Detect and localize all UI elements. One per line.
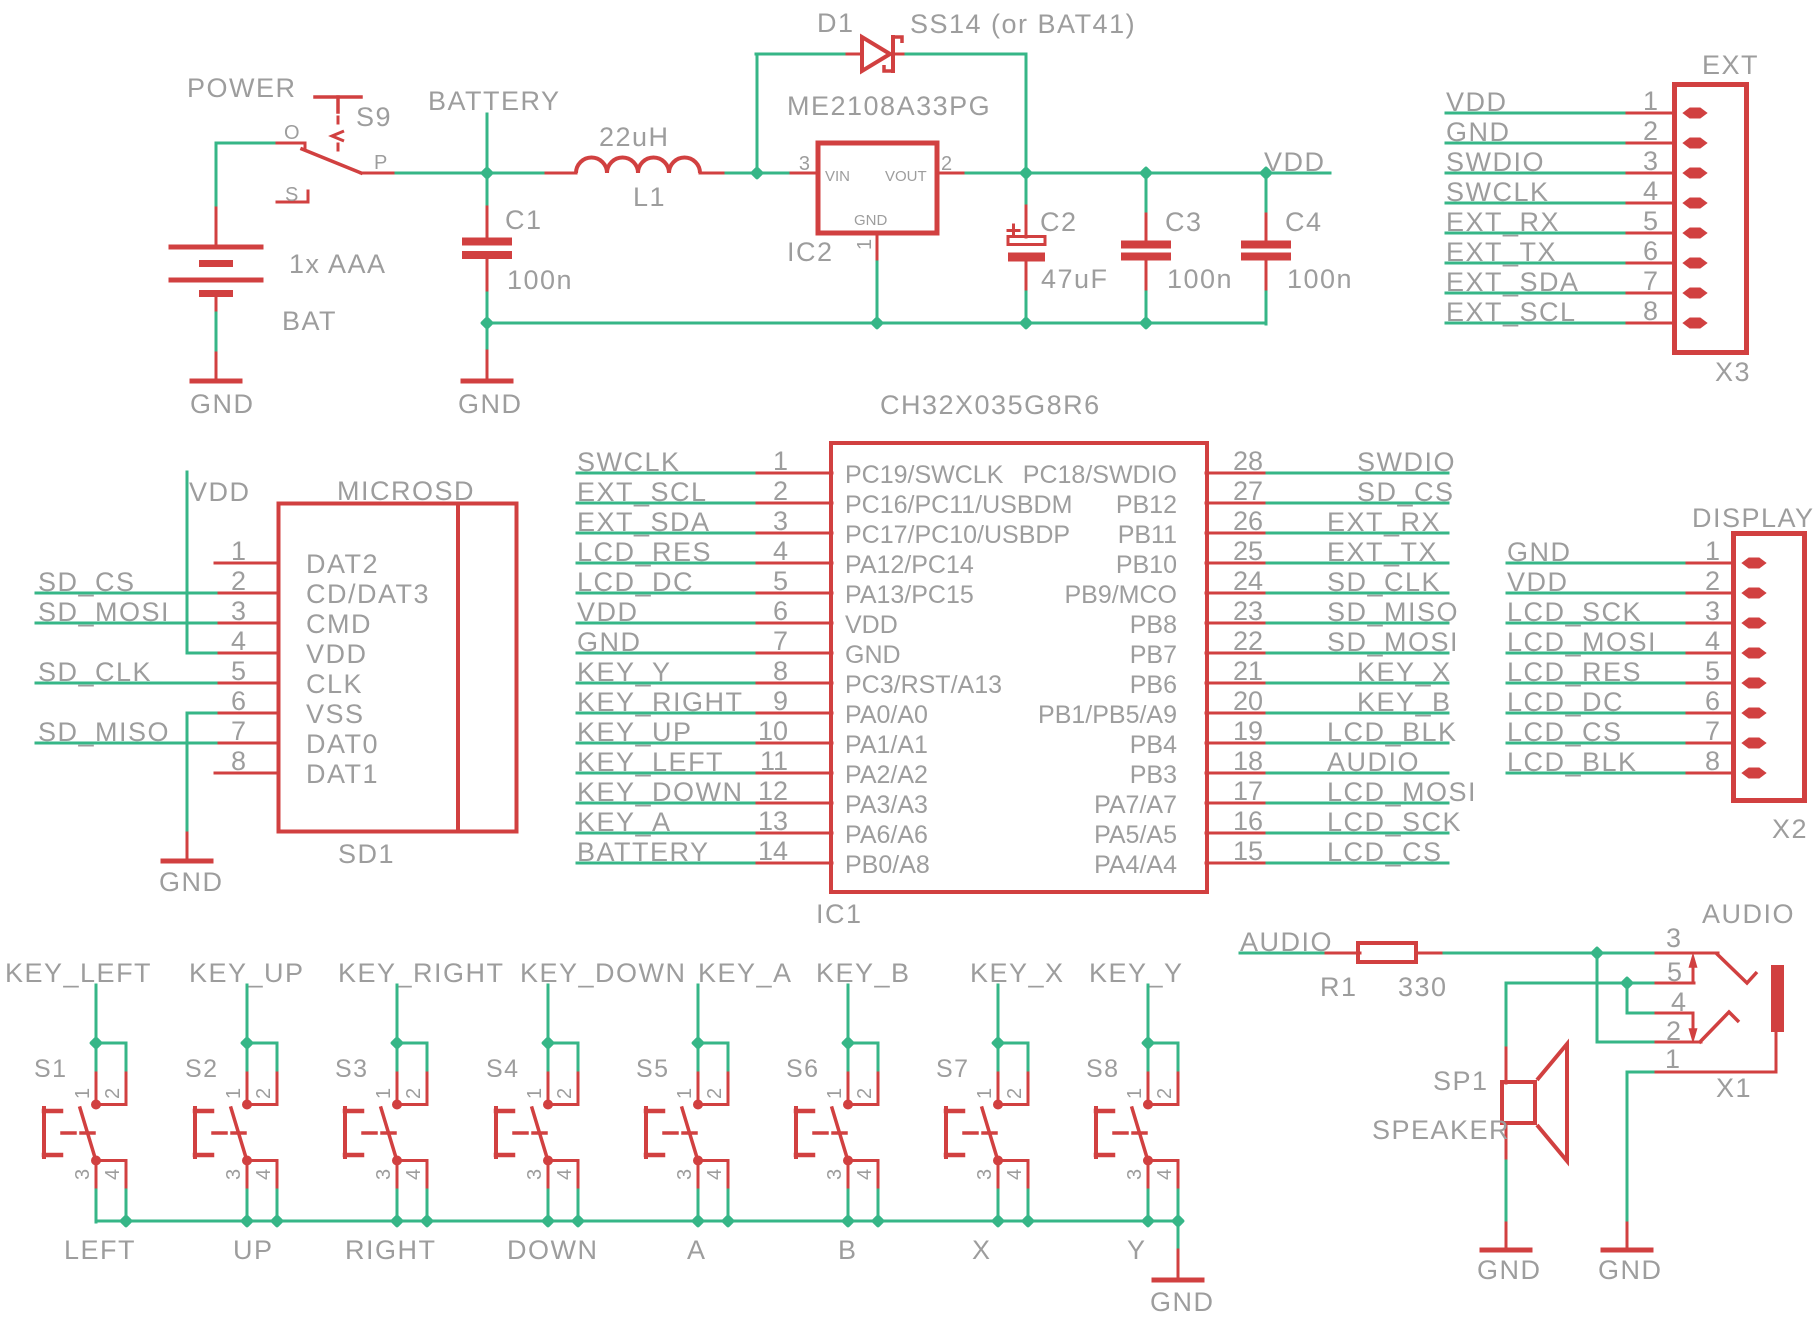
svg-text:S7: S7	[936, 1055, 970, 1083]
speaker SP1	[1502, 1044, 1567, 1162]
node junction ground rail at C3	[1139, 316, 1153, 330]
connector X2 DISPLAY box	[1734, 534, 1805, 801]
wire LCD_BLK to X2 pin 8	[1507, 772, 1688, 775]
wire EXT_RX to X3 pin 5	[1446, 232, 1628, 235]
svg-text:7: 7	[1643, 266, 1658, 296]
jack X1 ring contact	[1699, 1012, 1739, 1043]
wire S7 pins 1-2 bridge	[998, 1042, 1028, 1045]
svg-text:S9: S9	[356, 102, 392, 132]
svg-text:PB6: PB6	[1130, 671, 1177, 699]
svg-text:PC17/PC10/USBDP: PC17/PC10/USBDP	[845, 521, 1070, 549]
svg-text:3: 3	[524, 1169, 546, 1180]
svg-text:PB3: PB3	[1130, 761, 1177, 789]
svg-text:15: 15	[1233, 836, 1263, 866]
svg-text:4: 4	[1004, 1169, 1026, 1180]
svg-text:11: 11	[760, 746, 788, 776]
svg-text:PB10: PB10	[1116, 551, 1177, 579]
wire AUDIO to R1	[1240, 952, 1327, 955]
svg-text:CLK: CLK	[306, 669, 363, 699]
IC1 pin 26	[1206, 506, 1268, 536]
node junction ground rail at C2	[1019, 316, 1033, 330]
wire KEY_RIGHT drop	[396, 985, 399, 1044]
svg-text:VDD: VDD	[306, 639, 368, 669]
wire KEY_Y drop	[1147, 985, 1150, 1044]
svg-text:4: 4	[1643, 176, 1658, 206]
svg-text:X3: X3	[1715, 357, 1751, 387]
svg-text:20: 20	[1233, 686, 1263, 716]
wire S7 pins 3-4 to rail	[997, 1190, 1000, 1222]
svg-text:1: 1	[1705, 536, 1720, 566]
IC1 pin 11	[757, 746, 832, 776]
X2 pin 4	[1687, 626, 1765, 658]
IC1 pin 9	[757, 686, 832, 716]
node junction rail at S4 pin 3	[541, 1214, 555, 1228]
svg-text:S5: S5	[636, 1055, 670, 1083]
svg-text:GND: GND	[1598, 1255, 1663, 1285]
wire EXT_RX from IC1 pin 26	[1267, 532, 1448, 535]
wire IC2 pin1 to ground rail	[876, 262, 879, 323]
wire SD_CLK to SD1	[36, 682, 216, 685]
wire SD_CLK from IC1 pin 24	[1267, 592, 1448, 595]
SD1 pin 8 DAT1	[215, 746, 279, 776]
inductor L1	[546, 158, 727, 174]
node junction at S1 top	[89, 1036, 103, 1050]
svg-text:2: 2	[102, 1088, 124, 1099]
wire GND to X3 pin 2	[1446, 142, 1628, 145]
svg-text:ME2108A33PG: ME2108A33PG	[787, 91, 991, 121]
svg-text:3: 3	[1643, 146, 1658, 176]
wire battery + vertical	[215, 143, 218, 205]
switch S8	[1096, 1073, 1178, 1191]
switch S2	[195, 1073, 277, 1191]
svg-text:C1: C1	[505, 205, 543, 235]
svg-text:3: 3	[1705, 596, 1720, 626]
battery BAT symbol	[169, 204, 264, 313]
svg-text:S8: S8	[1086, 1055, 1120, 1083]
wire S5 pins 1-2 bridge	[698, 1042, 728, 1045]
svg-text:VIN: VIN	[825, 168, 850, 185]
wire S4 pins 3-4 to rail	[547, 1190, 550, 1222]
svg-text:EXT: EXT	[1702, 50, 1759, 80]
wire C1 ground drop	[486, 323, 489, 352]
svg-text:1: 1	[1665, 1044, 1680, 1074]
svg-text:4: 4	[1154, 1169, 1176, 1180]
IC1 pin 4	[757, 536, 832, 566]
svg-text:GND: GND	[159, 867, 224, 897]
node junction rail at S8 pin 3	[1141, 1214, 1155, 1228]
wire C4 bottom	[1265, 292, 1268, 324]
svg-text:1: 1	[773, 446, 788, 476]
svg-text:PA7/A7: PA7/A7	[1094, 791, 1177, 819]
IC1 pin 28	[1206, 446, 1268, 476]
switch S9 lever	[302, 149, 361, 173]
svg-text:2: 2	[704, 1088, 726, 1099]
svg-text:23: 23	[1233, 596, 1263, 626]
svg-text:B: B	[838, 1235, 858, 1265]
wire KEY_UP to IC1 pin 10	[577, 742, 758, 745]
wire LCD_BLK from IC1 pin 19	[1267, 742, 1448, 745]
svg-text:1: 1	[231, 536, 246, 566]
wire KEY_B drop	[847, 985, 850, 1044]
wire KEY_LEFT to IC1 pin 11	[577, 772, 758, 775]
svg-text:8: 8	[1643, 296, 1658, 326]
svg-text:3: 3	[773, 506, 788, 536]
wire R1 to jack X1 pin 3	[1444, 952, 1657, 955]
svg-text:2: 2	[1705, 566, 1720, 596]
svg-text:19: 19	[1233, 716, 1263, 746]
node junction at X1 pin 5	[1620, 976, 1634, 990]
wire SD_MISO from IC1 pin 23	[1267, 622, 1448, 625]
wire GND to SD1 pin 6	[187, 712, 216, 715]
svg-text:4: 4	[704, 1169, 726, 1180]
svg-text:PC16/PC11/USBDM: PC16/PC11/USBDM	[845, 491, 1072, 519]
svg-text:S3: S3	[335, 1055, 369, 1083]
jack X1 pin 4	[1656, 987, 1693, 1030]
node junction AUDIO at X1	[1590, 946, 1604, 960]
svg-text:22: 22	[1233, 626, 1263, 656]
wire speaker to X1 pin 5	[1506, 982, 1657, 985]
svg-text:RIGHT: RIGHT	[345, 1235, 437, 1265]
node junction rail at S2 pin 3	[240, 1214, 254, 1228]
X2 pin 5	[1687, 656, 1765, 688]
capacitor C1	[462, 203, 512, 294]
svg-text:22uH: 22uH	[599, 122, 670, 152]
IC1 pin 17	[1206, 776, 1268, 806]
wire AUDIO from IC1 pin 18	[1267, 772, 1448, 775]
node junction at S4 top	[541, 1036, 555, 1050]
svg-text:2: 2	[1004, 1088, 1026, 1099]
node junction rail at S1 pin 4	[119, 1214, 133, 1228]
svg-text:KEY_LEFT: KEY_LEFT	[5, 958, 152, 988]
svg-text:KEY_B: KEY_B	[816, 958, 911, 988]
svg-text:3: 3	[72, 1169, 94, 1180]
SD1 pin 1 DAT2	[215, 536, 279, 566]
wire LCD_RES to IC1 pin 4	[577, 562, 758, 565]
IC1 pin 2	[757, 476, 832, 506]
svg-text:PB1/PB5/A9: PB1/PB5/A9	[1038, 701, 1177, 729]
svg-text:VDD: VDD	[1264, 147, 1326, 177]
svg-text:1: 1	[373, 1088, 395, 1099]
svg-text:2: 2	[403, 1088, 425, 1099]
svg-text:GND: GND	[190, 389, 255, 419]
wire C2 top	[1025, 173, 1028, 203]
ground symbol at key rail	[1150, 1250, 1215, 1317]
svg-text:330: 330	[1398, 972, 1448, 1002]
wire AUDIO node to X1 pin 2	[1596, 953, 1599, 1042]
svg-text:S: S	[285, 184, 298, 206]
diode D1 schottky SS14	[847, 37, 907, 71]
svg-text:UP: UP	[233, 1235, 274, 1265]
svg-text:GND: GND	[458, 389, 523, 419]
wire C3 bottom	[1145, 292, 1148, 324]
svg-text:4: 4	[102, 1169, 124, 1180]
svg-text:DAT2: DAT2	[306, 549, 379, 579]
wire C3 top	[1145, 173, 1148, 211]
node junction at C3 top	[1139, 166, 1153, 180]
svg-text:GND: GND	[845, 641, 901, 669]
svg-text:KEY_RIGHT: KEY_RIGHT	[338, 958, 505, 988]
svg-text:BATTERY: BATTERY	[428, 86, 561, 116]
IC1 pin 21	[1206, 656, 1268, 686]
node junction ground rail at C1	[480, 316, 494, 330]
svg-text:3: 3	[974, 1169, 996, 1180]
svg-text:GND: GND	[854, 212, 888, 229]
regulator IC2 ME2108A33PG box	[818, 143, 937, 233]
svg-text:P: P	[374, 152, 387, 174]
svg-text:18: 18	[1233, 746, 1263, 776]
wire VOUT to VDD	[966, 172, 1330, 175]
svg-text:PA13/PC15: PA13/PC15	[845, 581, 974, 609]
switch S7	[946, 1073, 1028, 1191]
wire VIN node up to diode D1	[756, 54, 759, 174]
switch S6	[796, 1073, 878, 1191]
wire KEY_B from IC1 pin 20	[1267, 712, 1448, 715]
X3 pin 7	[1627, 266, 1706, 298]
IC2 pin 2	[939, 153, 967, 175]
wire S6 pins 1-2 bridge	[848, 1042, 878, 1045]
node junction at VIN	[750, 166, 764, 180]
svg-text:PC19/SWCLK: PC19/SWCLK	[845, 461, 1004, 489]
wire SWDIO from IC1 pin 28	[1267, 472, 1448, 475]
SD1 pin 3 CMD	[215, 596, 279, 626]
ground symbol at C1	[458, 351, 523, 419]
jack X1 switch arrow down	[1690, 1029, 1697, 1041]
svg-text:KEY_Y: KEY_Y	[1089, 958, 1184, 988]
svg-text:PA6/A6: PA6/A6	[845, 821, 928, 849]
wire S2 pins 1-2 bridge	[247, 1042, 277, 1045]
SD1 pin 5 CLK	[215, 656, 279, 686]
svg-text:KEY_DOWN: KEY_DOWN	[520, 958, 687, 988]
svg-text:3: 3	[373, 1169, 395, 1180]
svg-text:S1: S1	[34, 1055, 68, 1083]
node junction rail at S3 pin 4	[420, 1214, 434, 1228]
switch S3	[345, 1073, 427, 1191]
svg-text:13: 13	[758, 806, 788, 836]
X2 pin 7	[1687, 716, 1765, 748]
svg-text:X1: X1	[1716, 1073, 1752, 1103]
wire SWCLK to IC1 pin 1	[577, 472, 758, 475]
IC1 pin 25	[1206, 536, 1268, 566]
switch S9 actuator bar	[315, 97, 361, 112]
X3 pin 4	[1627, 176, 1706, 208]
svg-text:A: A	[687, 1235, 707, 1265]
wire KEY_LEFT drop	[95, 985, 98, 1044]
svg-text:CH32X035G8R6: CH32X035G8R6	[880, 390, 1101, 420]
switch S9 pin O contact	[277, 122, 305, 150]
X3 pin 3	[1627, 146, 1706, 178]
connector X3 EXT box	[1675, 85, 1747, 353]
node junction at S3 top	[390, 1036, 404, 1050]
X3 pin 2	[1627, 116, 1706, 148]
mcu IC1 CH32X035G8R6 box	[831, 443, 1207, 892]
svg-text:PA0/A0: PA0/A0	[845, 701, 928, 729]
svg-text:PB9/MCO: PB9/MCO	[1064, 581, 1177, 609]
wire S3 pins 1-2 bridge	[397, 1042, 427, 1045]
svg-text:27: 27	[1233, 476, 1263, 506]
svg-text:2: 2	[253, 1088, 275, 1099]
svg-text:X: X	[972, 1235, 992, 1265]
jack X1 pin 1	[1656, 1032, 1776, 1074]
svg-text:PA3/A3: PA3/A3	[845, 791, 928, 819]
wire VDD to X3 pin 1	[1446, 112, 1628, 115]
svg-text:26: 26	[1233, 506, 1263, 536]
capacitor C4	[1241, 210, 1291, 293]
IC1 pin 6	[757, 596, 832, 626]
svg-text:1: 1	[223, 1088, 245, 1099]
IC1 pin 14	[757, 836, 832, 866]
wire KEY_A to IC1 pin 13	[577, 832, 758, 835]
svg-text:D1: D1	[817, 8, 855, 38]
wire LCD_CS to X2 pin 7	[1507, 742, 1688, 745]
wire S8 pins 3-4 to rail	[1147, 1190, 1150, 1222]
IC1 pin 16	[1206, 806, 1268, 836]
node junction at S5 top	[691, 1036, 705, 1050]
svg-text:17: 17	[1233, 776, 1263, 806]
wire S3 pins 3-4 to rail	[396, 1190, 399, 1222]
svg-text:5: 5	[1705, 656, 1720, 686]
svg-text:5: 5	[231, 656, 246, 686]
wire LCD_SCK to X2 pin 3	[1507, 622, 1688, 625]
svg-text:GND: GND	[1150, 1287, 1215, 1317]
svg-text:14: 14	[758, 836, 788, 866]
node junction at S8 top	[1141, 1036, 1155, 1050]
IC1 pin 3	[757, 506, 832, 536]
IC1 pin 24	[1206, 566, 1268, 596]
IC2 pin 3	[787, 153, 816, 175]
svg-text:4: 4	[231, 626, 246, 656]
wire LCD_SCK from IC1 pin 16	[1267, 832, 1448, 835]
wire EXT_TX from IC1 pin 25	[1267, 562, 1448, 565]
wire KEY_UP drop	[246, 985, 249, 1044]
wire S5 pins 3-4 to rail	[697, 1190, 700, 1222]
svg-text:2: 2	[941, 153, 952, 175]
svg-text:6: 6	[1643, 236, 1658, 266]
wire KEY_Y to IC1 pin 8	[577, 682, 758, 685]
wire VDD to IC1 pin 6	[577, 622, 758, 625]
svg-text:MICROSD: MICROSD	[337, 476, 475, 506]
svg-text:S4: S4	[486, 1055, 520, 1083]
svg-text:VDD: VDD	[189, 477, 251, 507]
svg-text:4: 4	[773, 536, 788, 566]
X3 pin 8	[1627, 296, 1706, 328]
wire diode D1 to VOUT node	[906, 53, 1026, 56]
svg-text:R1: R1	[1320, 972, 1358, 1002]
X3 pin 5	[1627, 206, 1706, 238]
X2 pin 1	[1687, 536, 1765, 568]
svg-text:IC2: IC2	[787, 237, 834, 267]
IC1 pin 18	[1206, 746, 1268, 776]
X3 pin 1	[1627, 86, 1706, 118]
ground symbol at battery	[190, 353, 255, 419]
node junction rail at S5 pin 3	[691, 1214, 705, 1228]
wire switch P to inductor L1	[396, 172, 547, 175]
svg-text:C2: C2	[1040, 207, 1078, 237]
wire ground rail of regulator stage	[487, 322, 1266, 325]
svg-text:24: 24	[1233, 566, 1263, 596]
svg-text:7: 7	[773, 626, 788, 656]
svg-text:5: 5	[1643, 206, 1658, 236]
IC1 pin 12	[757, 776, 832, 806]
X2 pin 6	[1687, 686, 1765, 718]
svg-text:1: 1	[854, 239, 876, 250]
jack X1 plug bar	[1771, 965, 1784, 1032]
svg-text:2: 2	[1154, 1088, 1176, 1099]
wire from battery + to switch pin O	[216, 142, 279, 145]
node junction rail at S7 pin 3	[991, 1214, 1005, 1228]
X2 pin 8	[1687, 746, 1765, 778]
svg-text:2: 2	[1666, 1016, 1681, 1046]
wire C4 top	[1265, 173, 1268, 211]
wire EXT_SDA to X3 pin 7	[1446, 292, 1628, 295]
X2 pin 2	[1687, 566, 1765, 598]
svg-text:DOWN: DOWN	[507, 1235, 598, 1265]
node junction at C1 top	[480, 166, 494, 180]
wire X1 pin 1 ground	[1627, 1071, 1657, 1074]
svg-text:12: 12	[758, 776, 788, 806]
svg-text:10: 10	[758, 716, 788, 746]
wire C2 bottom	[1025, 292, 1028, 324]
svg-text:CD/DAT3: CD/DAT3	[306, 579, 430, 609]
svg-text:100n: 100n	[1167, 264, 1233, 294]
wire LCD_MOSI to X2 pin 4	[1507, 652, 1688, 655]
svg-text:28: 28	[1233, 446, 1263, 476]
wire SD_MISO to SD1	[36, 742, 216, 745]
svg-text:PC18/SWDIO: PC18/SWDIO	[1023, 461, 1177, 489]
node junction ground rail at IC2	[870, 316, 884, 330]
svg-text:KEY_X: KEY_X	[970, 958, 1065, 988]
svg-text:S2: S2	[185, 1055, 219, 1083]
wire S6 pins 3-4 to rail	[847, 1190, 850, 1222]
wire KEY_A drop	[697, 985, 700, 1044]
svg-text:8: 8	[773, 656, 788, 686]
wire GND to IC1 pin 7	[577, 652, 758, 655]
wire battery - to ground	[215, 313, 218, 354]
wire VIN junction to pin 3	[757, 172, 788, 175]
wire speaker top to X1 pin 5 net	[1505, 983, 1508, 1045]
svg-text:4: 4	[253, 1169, 275, 1180]
jack X1 pin 2	[1656, 1016, 1701, 1046]
wire S4 pins 1-2 bridge	[548, 1042, 578, 1045]
switch S9 pin S contact	[277, 184, 308, 206]
svg-text:DAT0: DAT0	[306, 729, 379, 759]
wire KEY_DOWN drop	[547, 985, 550, 1044]
svg-text:3: 3	[1124, 1169, 1146, 1180]
svg-text:2: 2	[1643, 116, 1658, 146]
svg-text:O: O	[284, 122, 300, 144]
svg-text:7: 7	[231, 716, 246, 746]
svg-text:47uF: 47uF	[1041, 264, 1109, 294]
SD1 pin 6 VSS	[215, 686, 279, 716]
svg-text:1: 1	[974, 1088, 996, 1099]
svg-text:PA5/A5: PA5/A5	[1094, 821, 1177, 849]
svg-text:1: 1	[524, 1088, 546, 1099]
svg-text:8: 8	[231, 746, 246, 776]
wire KEY_X from IC1 pin 21	[1267, 682, 1448, 685]
svg-text:PA2/A2: PA2/A2	[845, 761, 928, 789]
wire EXT_SCL to X3 pin 8	[1446, 322, 1628, 325]
svg-text:3: 3	[799, 153, 810, 175]
wire GND to X2 pin 1	[1507, 562, 1688, 565]
svg-text:6: 6	[773, 596, 788, 626]
svg-text:GND: GND	[1477, 1255, 1542, 1285]
svg-text:VSS: VSS	[306, 699, 365, 729]
svg-text:X2: X2	[1772, 814, 1808, 844]
wire BATTERY label stub	[486, 114, 489, 173]
svg-text:DISPLAY: DISPLAY	[1692, 503, 1815, 533]
svg-text:9: 9	[773, 686, 788, 716]
node junction rail at S6 pin 4	[871, 1214, 885, 1228]
IC2 pin 1 (GND)	[854, 236, 877, 263]
